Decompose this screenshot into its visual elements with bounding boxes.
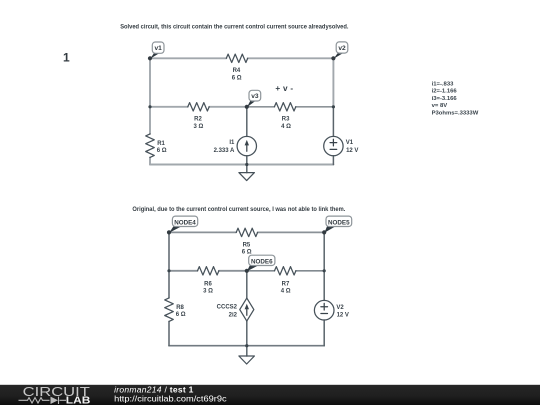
svg-text:Solved circuit, this circuit c: Solved circuit, this circuit contain the… bbox=[120, 24, 349, 31]
wire top: node v1 to R4 bbox=[150, 57, 226, 59]
svg-text:v1: v1 bbox=[155, 45, 163, 52]
svg-text:4 Ω: 4 Ω bbox=[281, 289, 291, 295]
ground stem (top circuit) bbox=[246, 165, 248, 173]
wire left vertical upper: NODE4 to R8 bbox=[168, 232, 170, 298]
svg-text:I1: I1 bbox=[229, 140, 235, 146]
wire bottom rail: left corner to right corner bbox=[150, 164, 333, 166]
wire top: NODE4 to R5 bbox=[169, 231, 236, 233]
junction dot v3 node bbox=[245, 105, 249, 109]
svg-text:NODE5: NODE5 bbox=[328, 219, 350, 226]
voltage source V2 circle bbox=[314, 300, 334, 320]
wire right vertical: node v2 down to middle rail bbox=[332, 58, 334, 107]
voltage source V2 plus sign bbox=[321, 306, 328, 308]
node label v1 bbox=[150, 42, 164, 59]
svg-text:2.333 A: 2.333 A bbox=[214, 148, 235, 154]
current source I1 circle bbox=[237, 136, 256, 155]
wire left vertical: R1 to bottom rail bbox=[149, 157, 151, 164]
node label NODE4 bbox=[169, 216, 198, 233]
voltage source V1 circle bbox=[324, 136, 343, 155]
svg-text:R6: R6 bbox=[204, 281, 212, 287]
voltage source V1 minus sign bbox=[330, 148, 337, 150]
pin V1 upper: middle to circle bbox=[332, 107, 334, 137]
ground triangle (top circuit) bbox=[239, 173, 255, 181]
svg-text:+ v -: + v - bbox=[275, 84, 293, 93]
junction dot NODE6 bbox=[245, 269, 249, 273]
svg-text:R4: R4 bbox=[233, 68, 241, 74]
svg-text:i1=-.833: i1=-.833 bbox=[432, 82, 455, 88]
svg-text:Original, due to the current c: Original, due to the current control cur… bbox=[132, 206, 345, 213]
svg-text:i2=-1.166: i2=-1.166 bbox=[432, 89, 458, 95]
wire middle: R7 to right rail bbox=[296, 270, 324, 272]
wire left vertical: node v1 down to R1 bbox=[149, 58, 151, 134]
junction dot left-middle bbox=[148, 105, 151, 108]
svg-text:3 Ω: 3 Ω bbox=[193, 124, 203, 130]
svg-text:R7: R7 bbox=[282, 281, 290, 287]
ground stem (bottom circuit) bbox=[246, 346, 248, 356]
svg-text:R5: R5 bbox=[243, 242, 251, 248]
junction dot left-middle (bottom circuit) bbox=[167, 269, 170, 272]
ground triangle (bottom circuit) bbox=[239, 356, 255, 364]
logo diode triangle bbox=[51, 397, 59, 404]
svg-text:v3: v3 bbox=[251, 93, 259, 100]
wire bottom: left to right bbox=[169, 345, 324, 347]
node label v3 bbox=[247, 90, 261, 107]
svg-text:6 Ω: 6 Ω bbox=[157, 148, 167, 154]
svg-text:NODE6: NODE6 bbox=[251, 258, 273, 265]
voltage source V2 minus sign bbox=[321, 313, 328, 315]
resistor R2 bbox=[188, 103, 209, 111]
svg-text:R2: R2 bbox=[194, 117, 202, 123]
pin V1 lower: circle to bottom wire bbox=[332, 156, 334, 165]
junction dot NODE4 bbox=[167, 230, 171, 234]
node label v2 bbox=[334, 42, 348, 59]
wire middle: left rail to R2 bbox=[150, 106, 188, 108]
junction dot v2 node bbox=[331, 56, 335, 60]
wire top: R4 to node v2 bbox=[248, 57, 334, 59]
svg-text:V1: V1 bbox=[346, 140, 354, 146]
pin I1 lower: circle to bottom wire bbox=[246, 156, 248, 165]
svg-text:i3=-3.166: i3=-3.166 bbox=[432, 96, 458, 102]
resistor R1 bbox=[146, 134, 155, 158]
wire left vertical lower: R8 to bottom bbox=[168, 321, 170, 345]
svg-text:12 V: 12 V bbox=[337, 313, 349, 319]
wire middle: R2 to node v3 bbox=[209, 106, 247, 108]
junction dot right-middle bbox=[332, 105, 335, 108]
resistor R7 bbox=[275, 267, 296, 275]
wire top: R5 to NODE5 bbox=[258, 231, 325, 233]
wire right vertical lower: V2 to bottom bbox=[323, 320, 325, 346]
svg-text:R1: R1 bbox=[157, 141, 165, 147]
svg-text:CCCS2: CCCS2 bbox=[217, 305, 238, 311]
junction dot bottom-ground (bottom circuit) bbox=[245, 344, 248, 347]
logo resistor-diode line bbox=[19, 397, 67, 404]
wire right vertical upper: NODE5 to V2 bbox=[323, 232, 325, 300]
footer bar bbox=[0, 385, 540, 405]
junction dot v1 node bbox=[148, 56, 152, 60]
CCCS2 arrow bbox=[246, 309, 248, 315]
wire middle: left rail to R6 bbox=[169, 270, 198, 272]
junction dot NODE5 bbox=[322, 230, 326, 234]
svg-text:3 Ω: 3 Ω bbox=[203, 289, 213, 295]
svg-text:12 V: 12 V bbox=[346, 148, 358, 154]
svg-text:http://circuitlab.com/ct69r9c: http://circuitlab.com/ct69r9c bbox=[114, 393, 227, 403]
resistor R6 bbox=[198, 267, 219, 275]
junction dot right-middle (bottom circuit) bbox=[323, 269, 326, 272]
svg-text:V2: V2 bbox=[336, 305, 344, 311]
node label NODE5 bbox=[324, 216, 351, 233]
wire middle: node v3 to R3 bbox=[247, 106, 275, 108]
resistor R5 bbox=[236, 228, 257, 236]
CCCS2 diamond bbox=[240, 298, 254, 321]
current source I1 arrow bbox=[246, 145, 248, 151]
node label NODE6 bbox=[247, 255, 275, 271]
svg-text:1: 1 bbox=[63, 51, 70, 65]
svg-text:6 Ω: 6 Ω bbox=[232, 75, 242, 81]
svg-text:6 Ω: 6 Ω bbox=[242, 250, 252, 256]
svg-text:v2: v2 bbox=[338, 45, 346, 52]
resistor R4 bbox=[226, 54, 247, 62]
junction dot bottom-ground bbox=[245, 163, 248, 166]
svg-text:R3: R3 bbox=[282, 117, 290, 123]
wire middle: NODE6 to R7 bbox=[247, 270, 275, 272]
svg-text:P3ohms=.3333W: P3ohms=.3333W bbox=[432, 111, 479, 117]
svg-text:LAB: LAB bbox=[66, 395, 91, 405]
svg-text:v= 8V: v= 8V bbox=[432, 103, 448, 109]
pin CCCS2 lower: diamond to bottom bbox=[246, 321, 248, 346]
resistor R3 bbox=[274, 103, 295, 111]
wire middle: R3 to right rail bbox=[296, 106, 334, 108]
voltage source V1 plus sign bbox=[330, 142, 337, 144]
svg-text:2i2: 2i2 bbox=[229, 313, 238, 319]
resistor R8 bbox=[165, 298, 174, 322]
pin I1 upper: v3 node to circle bbox=[246, 107, 248, 137]
svg-text:NODE4: NODE4 bbox=[174, 219, 196, 226]
svg-text:4 Ω: 4 Ω bbox=[281, 124, 291, 130]
pin CCCS2 upper: NODE6 to diamond bbox=[246, 271, 248, 298]
svg-text:R8: R8 bbox=[176, 305, 184, 311]
svg-text:6 Ω: 6 Ω bbox=[176, 312, 186, 318]
wire middle: R6 to NODE6 bbox=[219, 270, 247, 272]
